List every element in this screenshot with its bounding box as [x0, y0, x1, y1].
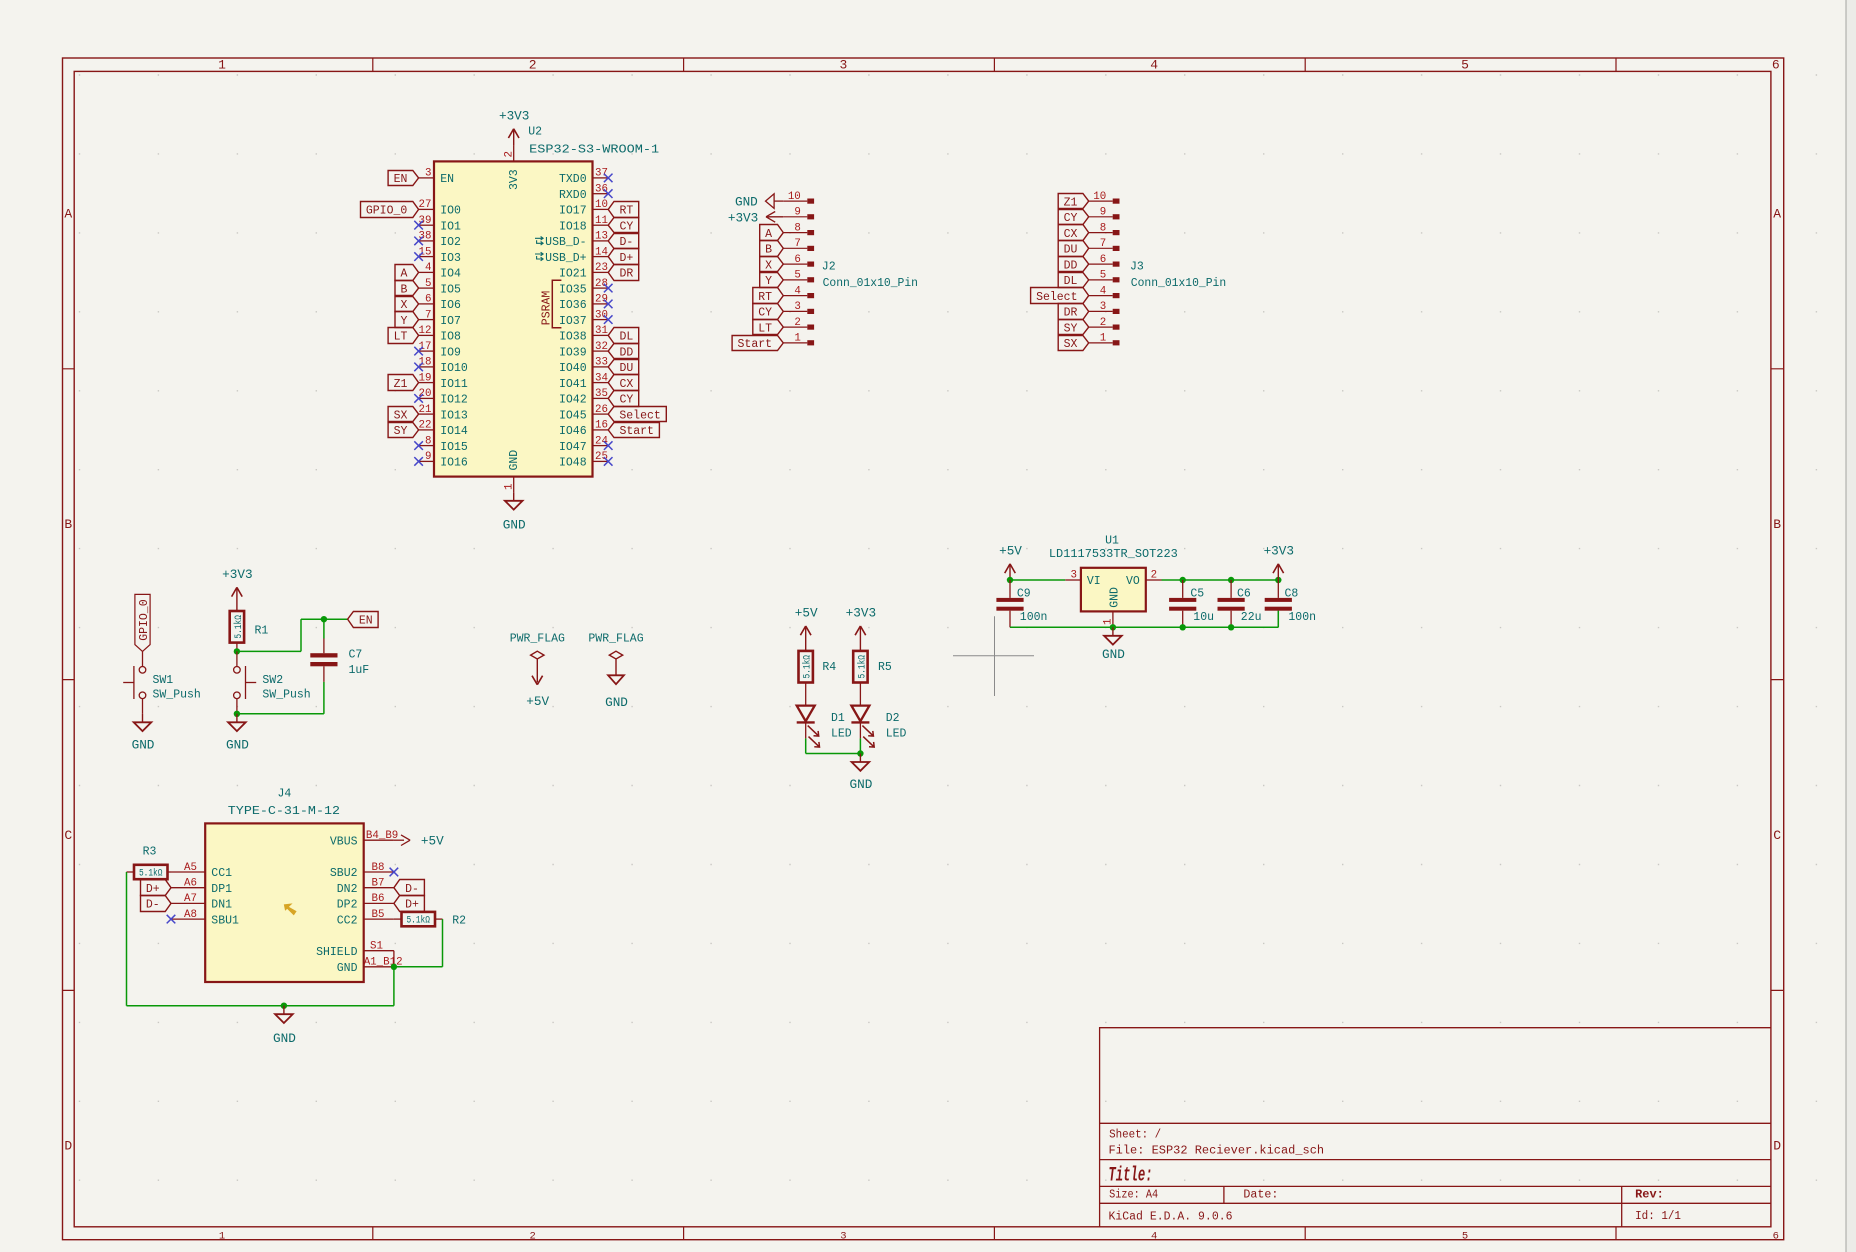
svg-text:IO4: IO4 — [440, 268, 461, 281]
global label DR — [608, 265, 639, 281]
svg-text:RT: RT — [619, 205, 633, 218]
U2 pin 20 IO12 — [419, 388, 468, 406]
bottom ground bus wire — [1010, 626, 1278, 628]
U2 pin 34 IO41 — [559, 372, 608, 390]
no-connect on U2 pin 25 — [604, 457, 613, 466]
svg-text:10u: 10u — [1193, 611, 1214, 624]
svg-text:18: 18 — [419, 357, 432, 369]
svg-text:11: 11 — [595, 215, 608, 227]
U2 pin 33 IO40 — [559, 357, 608, 375]
svg-text:GND: GND — [132, 737, 155, 752]
svg-text:ESP32-S3-WROOM-1: ESP32-S3-WROOM-1 — [529, 144, 659, 157]
svg-text:IO6: IO6 — [440, 299, 461, 312]
svg-text:A: A — [765, 228, 772, 241]
svg-text:D-: D- — [405, 883, 419, 896]
svg-text:DU: DU — [619, 362, 633, 375]
svg-text:DP1: DP1 — [211, 883, 232, 896]
svg-text:4: 4 — [1100, 285, 1106, 297]
global label EN — [348, 612, 379, 628]
resistor R2 — [402, 912, 436, 926]
J3 pin 1 — [1089, 333, 1120, 346]
junction R1/SW2/EN — [234, 648, 240, 654]
svg-text:IO21: IO21 — [559, 268, 587, 281]
svg-text:IO35: IO35 — [559, 283, 587, 296]
svg-text:8: 8 — [794, 222, 800, 234]
no-connect on U2 pin 36 — [604, 189, 613, 198]
svg-text:C6: C6 — [1237, 588, 1251, 601]
svg-text:Y: Y — [400, 315, 407, 328]
U2 pin 24 IO47 — [559, 435, 608, 453]
wire C7 bottom to SW2 bottom — [323, 682, 325, 714]
svg-text:17: 17 — [419, 341, 432, 353]
U2 pin 11 IO18 — [559, 215, 608, 233]
regulator U1 body — [1081, 568, 1146, 612]
global label DD — [1058, 257, 1089, 272]
global label SY — [1058, 320, 1089, 335]
svg-text:DD: DD — [619, 346, 633, 359]
svg-text:DU: DU — [1064, 244, 1078, 257]
global label Select — [608, 407, 666, 422]
svg-text:B5: B5 — [372, 909, 385, 921]
global label SY — [388, 423, 419, 438]
U2 pin 10 IO17 — [559, 199, 608, 217]
svg-text:IO8: IO8 — [440, 331, 461, 344]
svg-text:38: 38 — [419, 231, 432, 243]
wire +5V to U1 VI — [1010, 579, 1065, 581]
svg-text:A6: A6 — [184, 878, 197, 890]
wire R1 junction to EN corner — [237, 650, 301, 652]
U2 pin 32 IO39 — [559, 341, 608, 359]
svg-text:2: 2 — [794, 317, 800, 329]
no-connect on U2 pin 29 — [604, 300, 613, 309]
J3 pin 4 — [1089, 285, 1120, 298]
svg-text:VBUS: VBUS — [330, 835, 358, 848]
U2 pin 16 IO46 — [559, 420, 608, 438]
svg-text:6: 6 — [425, 294, 431, 306]
svg-text:12: 12 — [419, 325, 432, 337]
global label SX — [388, 407, 419, 422]
svg-text:EN: EN — [440, 173, 454, 186]
svg-text:29: 29 — [595, 294, 608, 306]
J3 pin 3 — [1089, 301, 1120, 314]
svg-text:IO36: IO36 — [559, 299, 587, 312]
svg-text:3: 3 — [425, 168, 431, 180]
no-connect on U2 pin 30 — [604, 315, 613, 324]
J4 pin A6 DP1 — [171, 878, 232, 896]
svg-text:S1: S1 — [370, 941, 383, 953]
svg-text:Title:: Title: — [1108, 1165, 1152, 1188]
cursor crosshair — [953, 616, 1034, 696]
svg-text:10: 10 — [595, 199, 608, 211]
svg-text:SY: SY — [394, 425, 408, 438]
U2 pin 2 3V3 (top) — [513, 146, 515, 162]
svg-text:Id: 1/1: Id: 1/1 — [1635, 1210, 1681, 1223]
U1 pin 3 VI — [1065, 570, 1100, 589]
svg-text:+5V: +5V — [526, 694, 549, 709]
global label DU — [608, 360, 639, 375]
power symbol GND at J2 pin 10 — [735, 194, 783, 210]
R4 to D1 wire — [805, 683, 807, 706]
global label D+ at DP2 — [394, 896, 425, 912]
J2 pin 10 — [783, 191, 814, 204]
svg-text:IO1: IO1 — [440, 220, 461, 233]
R3 left pin — [127, 871, 135, 873]
no-connect on U2 pin 38 — [414, 237, 423, 246]
svg-text:Select: Select — [619, 409, 660, 422]
svg-text:LD1117533TR_SOT223: LD1117533TR_SOT223 — [1049, 548, 1178, 561]
U2 pin 39 IO1 — [419, 215, 461, 233]
R1 to SW2 junction pin — [236, 643, 238, 652]
svg-text:C8: C8 — [1285, 588, 1299, 601]
J2 pin 2 — [783, 317, 814, 330]
svg-text:22u: 22u — [1241, 611, 1262, 624]
svg-text:5: 5 — [425, 278, 431, 290]
bottom GND bus wire — [127, 1005, 394, 1007]
U2 pin 15 IO3 — [419, 246, 461, 264]
svg-text:Conn_01x10_Pin: Conn_01x10_Pin — [1131, 277, 1226, 290]
svg-text:Conn_01x10_Pin: Conn_01x10_Pin — [823, 277, 918, 290]
svg-text:Start: Start — [738, 338, 773, 351]
no-connect on U2 pin 20 — [414, 394, 423, 403]
svg-text:IO12: IO12 — [440, 394, 468, 407]
svg-text:EN: EN — [359, 614, 373, 627]
svg-text:IO42: IO42 — [559, 394, 587, 407]
svg-text:File: ESP32 Reciever.kicad_sch: File: ESP32 Reciever.kicad_sch — [1109, 1144, 1325, 1157]
U2 pin 9 IO16 — [419, 451, 468, 469]
U2 pin 5 IO5 — [419, 278, 461, 296]
svg-text:D+: D+ — [146, 883, 160, 896]
svg-text:D1: D1 — [831, 712, 845, 725]
svg-text:+3V3: +3V3 — [222, 567, 252, 582]
junction EN/C7 — [321, 616, 327, 622]
svg-text:GND: GND — [503, 517, 526, 532]
svg-text:+5V: +5V — [795, 606, 818, 621]
global label DD — [608, 344, 639, 359]
svg-text:+3V3: +3V3 — [846, 606, 876, 621]
power symbol +5V at U1 input — [1009, 564, 1011, 580]
svg-text:VI: VI — [1087, 575, 1101, 588]
J4 pin B5 CC2 — [337, 909, 394, 927]
ESP32 module U2 body — [434, 161, 593, 476]
svg-text:CY: CY — [758, 307, 772, 320]
global label CY — [608, 218, 639, 233]
wire C8 bottom corner — [1277, 611, 1279, 628]
svg-text:IO17: IO17 — [559, 205, 587, 218]
ground symbol below U2 — [513, 492, 515, 501]
wire D1 to GND junction — [805, 738, 807, 753]
no-connect on U2 pin 15 — [414, 252, 423, 261]
svg-text:LED: LED — [831, 728, 852, 741]
resistor R4 — [799, 651, 813, 683]
power flag on +5V — [510, 633, 565, 676]
switch SW1 — [123, 651, 146, 713]
global label DU — [1058, 241, 1089, 257]
U2 pin 22 IO14 — [419, 420, 468, 438]
svg-text:5.1kΩ: 5.1kΩ — [802, 655, 814, 679]
global label CY — [753, 304, 784, 320]
svg-text:PWR_FLAG: PWR_FLAG — [588, 633, 643, 646]
svg-text:VO: VO — [1126, 575, 1140, 588]
svg-text:Select: Select — [1036, 291, 1077, 304]
no-connect on U2 pin 17 — [414, 347, 423, 356]
J3 pin 5 — [1089, 270, 1120, 283]
svg-text:DD: DD — [1064, 259, 1078, 272]
svg-text:1: 1 — [504, 484, 516, 490]
svg-text:IO41: IO41 — [559, 378, 587, 391]
svg-text:SW_Push: SW_Push — [153, 688, 201, 701]
svg-text:LED: LED — [886, 728, 907, 741]
mouse cursor — [284, 903, 297, 915]
svg-text:1: 1 — [218, 58, 226, 73]
wire R2 to GND net — [442, 919, 444, 967]
J4 pin B4_B9 VBUS — [330, 830, 398, 848]
ground symbol below J4 — [283, 1006, 285, 1015]
wire D2 to GND junction — [859, 738, 861, 753]
U2 pin 8 IO15 — [419, 435, 468, 453]
global label D+ at DP1 — [141, 880, 172, 896]
svg-text:PWR_FLAG: PWR_FLAG — [510, 633, 565, 646]
U2 pin 18 IO10 — [419, 357, 468, 375]
svg-text:4: 4 — [794, 285, 800, 297]
svg-text:2: 2 — [1100, 317, 1106, 329]
svg-text:3: 3 — [794, 301, 800, 313]
svg-text:GND: GND — [508, 450, 521, 471]
global label Z1 — [1058, 194, 1089, 209]
svg-text:9: 9 — [1100, 207, 1106, 219]
svg-text:4: 4 — [425, 262, 431, 274]
J4 pin B6 DP2 — [337, 893, 394, 911]
power flag on GND — [588, 633, 643, 676]
junction +5V/C9 — [1007, 577, 1013, 583]
J2 pin 8 — [783, 222, 814, 235]
J3 pin 6 — [1089, 254, 1120, 267]
U2 pin 35 IO42 — [559, 388, 608, 406]
svg-text:R1: R1 — [255, 624, 269, 637]
J2 pin 4 — [783, 285, 814, 298]
J2 pin 7 — [783, 238, 814, 251]
svg-text:SW1: SW1 — [153, 674, 174, 687]
svg-text:1: 1 — [219, 1230, 225, 1242]
U2 PSRAM bracket — [552, 280, 561, 328]
U2 pin 28 IO35 — [559, 278, 608, 296]
wire U1 VO to +3V3 — [1162, 579, 1279, 581]
svg-text:5.1kΩ: 5.1kΩ — [406, 915, 430, 927]
U2 pin 27 IO0 — [419, 199, 461, 217]
power symbol +5V at VBUS — [394, 834, 444, 849]
U2 pin 23 IO21 — [559, 262, 608, 280]
svg-text:+3V3: +3V3 — [728, 210, 758, 225]
J3 pin 10 — [1089, 191, 1120, 204]
svg-text:6: 6 — [1772, 58, 1780, 73]
svg-text:+5V: +5V — [999, 544, 1022, 559]
J4 pin B7 DN2 — [337, 878, 394, 896]
svg-text:D+: D+ — [619, 252, 633, 265]
svg-text:27: 27 — [419, 199, 432, 211]
svg-text:C: C — [64, 828, 72, 843]
global label DL — [608, 328, 639, 344]
svg-text:CY: CY — [1064, 212, 1078, 225]
no-connect on J4 SBU1 — [167, 915, 176, 924]
svg-text:2: 2 — [529, 58, 537, 73]
no-connect on U2 pin 9 — [414, 457, 423, 466]
svg-text:+3V3: +3V3 — [499, 109, 529, 124]
svg-text:B: B — [1773, 517, 1781, 532]
svg-text:RXD0: RXD0 — [559, 189, 587, 202]
global label X — [760, 257, 784, 272]
svg-text:39: 39 — [419, 215, 432, 227]
U1 pin 1 GND — [1103, 587, 1122, 627]
ground symbol below SW1 — [142, 714, 144, 723]
svg-text:A: A — [400, 268, 407, 281]
svg-text:100n: 100n — [1288, 611, 1316, 624]
svg-text:USB_D-: USB_D- — [545, 236, 586, 249]
svg-text:3: 3 — [1100, 301, 1106, 313]
svg-text:A: A — [64, 207, 72, 222]
svg-text:D+: D+ — [405, 899, 419, 912]
svg-text:GND: GND — [1102, 647, 1125, 662]
svg-text:1uF: 1uF — [349, 664, 370, 677]
ground symbol below SW2 — [236, 714, 238, 723]
svg-text:9: 9 — [425, 451, 431, 463]
power symbol +3V3 above R5 — [859, 626, 861, 651]
svg-text:36: 36 — [595, 184, 608, 196]
junction bottom GND — [281, 1003, 287, 1009]
U2 pin 31 IO38 — [559, 325, 608, 343]
svg-text:B6: B6 — [372, 893, 385, 905]
R5 to D2 wire — [859, 683, 861, 706]
global label A — [760, 225, 784, 241]
svg-text:IO47: IO47 — [559, 441, 587, 454]
svg-text:25: 25 — [595, 451, 608, 463]
svg-text:4: 4 — [1151, 1230, 1157, 1242]
svg-text:CY: CY — [619, 394, 633, 407]
svg-text:10: 10 — [788, 191, 801, 203]
global label Y — [760, 273, 784, 288]
global label DR — [1058, 304, 1089, 320]
svg-text:R2: R2 — [452, 914, 466, 927]
svg-text:SX: SX — [1064, 338, 1078, 351]
svg-text:J3: J3 — [1130, 261, 1144, 274]
svg-text:35: 35 — [595, 388, 608, 400]
no-connect on J4 SBU2 — [390, 868, 399, 877]
global label SX — [1058, 336, 1089, 351]
svg-text:14: 14 — [595, 246, 608, 258]
svg-text:37: 37 — [595, 168, 608, 180]
svg-text:5.1kΩ: 5.1kΩ — [233, 615, 245, 639]
capacitor C9 — [996, 580, 1023, 627]
svg-text:A5: A5 — [184, 862, 197, 874]
ground symbol below U1 — [1112, 627, 1114, 636]
svg-text:SHIELD: SHIELD — [316, 946, 358, 959]
global label D- at DN1 — [141, 896, 172, 912]
global label D+ — [608, 249, 639, 265]
svg-text:SW2: SW2 — [262, 674, 283, 687]
ground symbol below LEDs — [859, 754, 861, 763]
svg-text:TXD0: TXD0 — [559, 173, 587, 186]
svg-text:PSRAM: PSRAM — [541, 291, 554, 326]
U2 pin 3 EN — [419, 168, 454, 186]
svg-text:C: C — [1773, 828, 1781, 843]
svg-text:B8: B8 — [372, 862, 385, 874]
svg-text:30: 30 — [595, 309, 608, 321]
svg-text:B: B — [64, 517, 72, 532]
U2 pin 6 IO6 — [419, 294, 461, 312]
wire J4 GND down — [393, 967, 395, 1006]
svg-text:IO37: IO37 — [559, 315, 587, 328]
U2 pin 37 TXD0 — [559, 168, 608, 186]
svg-text:IO13: IO13 — [440, 409, 468, 422]
resistor R1 — [230, 611, 244, 643]
U2 pin 38 IO2 — [419, 231, 461, 249]
svg-text:19: 19 — [419, 372, 432, 384]
svg-text:3: 3 — [1071, 570, 1077, 582]
U2 pin 14 USB_D+ — [535, 246, 608, 264]
global label D- — [608, 234, 639, 249]
svg-text:GND: GND — [337, 962, 358, 975]
svg-text:IO10: IO10 — [440, 362, 468, 375]
power symbol +3V3 at U1 output — [1277, 564, 1279, 580]
svg-text:SBU1: SBU1 — [211, 914, 239, 927]
J4 pin A8 SBU1 — [171, 909, 239, 927]
svg-text:RT: RT — [758, 291, 772, 304]
global label Z1 — [388, 375, 419, 391]
svg-text:+3V3: +3V3 — [1264, 544, 1294, 559]
J2 pin 5 — [783, 270, 814, 283]
svg-text:IO11: IO11 — [440, 378, 468, 391]
svg-text:5.1kΩ: 5.1kΩ — [139, 868, 163, 880]
svg-text:DR: DR — [619, 268, 633, 281]
svg-text:3V3: 3V3 — [508, 169, 521, 190]
svg-text:B7: B7 — [372, 878, 385, 890]
global label Start — [608, 423, 659, 438]
svg-text:23: 23 — [595, 262, 608, 274]
svg-text:24: 24 — [595, 435, 608, 447]
svg-text:5: 5 — [1100, 270, 1106, 282]
svg-text:7: 7 — [794, 238, 800, 250]
switch SW2 — [234, 651, 257, 713]
U2 pin 29 IO36 — [559, 294, 608, 312]
svg-text:7: 7 — [425, 309, 431, 321]
svg-text:32: 32 — [595, 341, 608, 353]
svg-text:4: 4 — [1150, 58, 1158, 73]
svg-text:USB_D+: USB_D+ — [545, 252, 587, 265]
svg-text:22: 22 — [419, 420, 432, 432]
U2 pin 4 IO4 — [419, 262, 461, 280]
svg-text:C5: C5 — [1190, 588, 1204, 601]
svg-text:SW_Push: SW_Push — [262, 688, 310, 701]
svg-text:SX: SX — [394, 409, 408, 422]
svg-text:DN1: DN1 — [211, 899, 232, 912]
svg-text:IO46: IO46 — [559, 425, 587, 438]
global label Select — [1031, 288, 1089, 304]
global label LT — [388, 328, 419, 344]
U2 pin 30 IO37 — [559, 309, 608, 327]
svg-text:8: 8 — [1100, 222, 1106, 234]
svg-text:IO7: IO7 — [440, 315, 461, 328]
svg-text:Start: Start — [619, 425, 654, 438]
svg-text:R4: R4 — [822, 661, 836, 674]
J3 pin 2 — [1089, 317, 1120, 330]
junction SW2/C7/GND — [234, 711, 240, 717]
svg-text:D-: D- — [146, 899, 160, 912]
svg-text:8: 8 — [425, 435, 431, 447]
svg-text:Rev:: Rev: — [1635, 1187, 1664, 1201]
U2 pin 36 RXD0 — [559, 184, 608, 202]
U2 pin 26 IO45 — [559, 404, 608, 422]
svg-text:2: 2 — [504, 151, 516, 157]
svg-text:5: 5 — [1461, 58, 1469, 73]
svg-text:20: 20 — [419, 388, 432, 400]
